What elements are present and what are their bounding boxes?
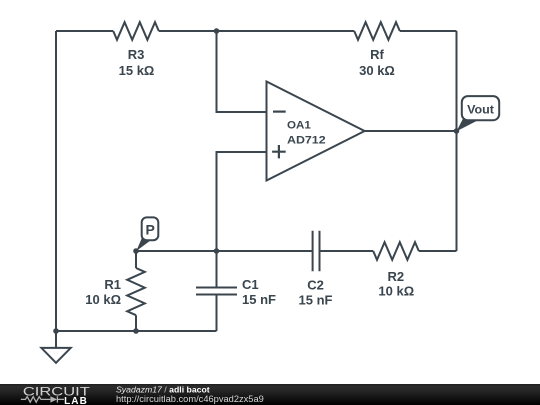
flag tail P [136, 237, 151, 251]
resistor R3 [113, 22, 159, 40]
resistor Rf [354, 22, 400, 40]
svg-text:http://circuitlab.com/c46pvad2: http://circuitlab.com/c46pvad2zx5a9 [116, 394, 264, 404]
wire R1 bottom [135, 315, 137, 331]
op-amp OA1 triangle [267, 82, 365, 181]
svg-text:15 nF: 15 nF [299, 293, 333, 308]
wire top right segment [400, 30, 457, 32]
junction node ground [53, 328, 59, 334]
svg-text:C2: C2 [307, 278, 324, 293]
ground stub [55, 331, 57, 348]
svg-text:15 kΩ: 15 kΩ [119, 63, 155, 78]
resistor R2 [373, 242, 419, 260]
junction node C1 top [214, 248, 220, 254]
capacitor C2 plates [313, 231, 320, 272]
svg-text:Vout: Vout [467, 103, 494, 117]
op-amp minus sign [273, 110, 286, 112]
node flag Vout box [462, 96, 499, 120]
capacitor C1 plates [196, 288, 237, 295]
op-amp plus sign [272, 145, 286, 158]
ground triangle [41, 348, 70, 363]
wire right vertical [456, 31, 458, 251]
flag tail Vout [457, 118, 479, 132]
wire node P down to R1 [135, 251, 137, 268]
junction node R1 bottom [133, 328, 139, 334]
node flag P box [142, 217, 159, 240]
svg-text:P: P [146, 222, 155, 238]
logo resistor-diode glyph [21, 396, 64, 402]
wire top middle segment [159, 30, 354, 32]
wire C2 to R2 [320, 250, 374, 252]
svg-text:10 kΩ: 10 kΩ [378, 284, 414, 299]
svg-text:10 kΩ: 10 kΩ [85, 292, 121, 307]
svg-text:C1: C1 [242, 277, 259, 292]
svg-text:AD712: AD712 [287, 134, 326, 146]
wire C1 bottom lead [216, 295, 218, 332]
svg-text:R1: R1 [104, 277, 121, 292]
svg-text:Syadazm17 / adli bacot: Syadazm17 / adli bacot [116, 385, 210, 395]
resistor R1 [127, 268, 145, 315]
svg-text:R2: R2 [387, 269, 404, 284]
svg-text:LAB: LAB [64, 396, 87, 405]
logo diode triangle [50, 396, 57, 402]
wire left vertical [55, 31, 57, 331]
wire R2 to right vertical [419, 250, 457, 252]
junction node Vout [454, 128, 460, 134]
wire node P to C2 [136, 250, 313, 252]
svg-text:Rf: Rf [370, 47, 384, 62]
wire top-left segment [56, 30, 113, 32]
svg-text:OA1: OA1 [287, 119, 311, 131]
wire C1 top lead [216, 251, 218, 288]
svg-text:30 kΩ: 30 kΩ [359, 63, 395, 78]
junction node P [133, 248, 139, 254]
wire inverting input from node [217, 31, 267, 112]
wire op-amp output [365, 130, 457, 132]
junction node R3/Rf [214, 28, 220, 34]
svg-text:R3: R3 [128, 47, 145, 62]
wire noninverting input from node P [217, 152, 267, 251]
svg-text:15 nF: 15 nF [242, 292, 276, 307]
wire bottom horizontal [56, 330, 217, 332]
